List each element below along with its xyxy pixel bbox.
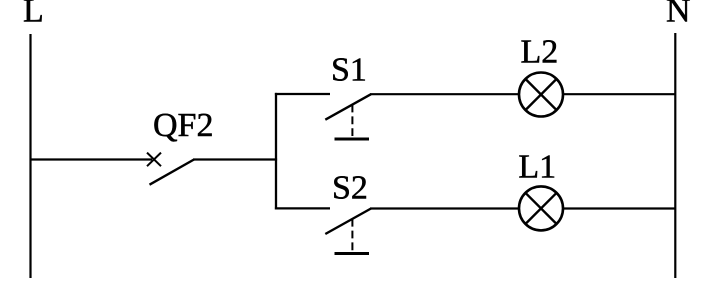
wire top branch from junction to S1 [275,93,330,95]
wire L rail (left vertical supply line) [29,34,31,278]
svg-text:N: N [666,0,691,29]
wire from S1 to lamp L2 [370,93,519,95]
wire from S2 to lamp L1 [370,207,519,209]
svg-text:L1: L1 [518,148,556,185]
switch S2 blade [325,209,371,235]
switch S2 actuator link (dashed) [351,219,353,251]
wire bottom branch from junction to S2 [275,207,330,209]
svg-text:S1: S1 [331,52,367,89]
lamp L2 circle [519,73,563,117]
lamp L1 circle [519,186,563,230]
breaker QF2 contact cross [147,153,161,167]
switch S1 actuator bar [335,138,370,141]
svg-text:L2: L2 [521,34,559,71]
wire N rail (right vertical supply line) [674,33,676,278]
switch S1 actuator link (dashed) [351,105,353,137]
wire from lamp L2 to N rail [563,93,676,95]
wire main from L rail to QF2 contact [30,158,153,160]
switch S2 actuator bar [335,252,370,255]
wire from lamp L1 to N rail [563,207,676,209]
svg-text:QF2: QF2 [153,107,213,144]
lamp L1 cross [525,193,556,224]
wire junction vertical (branch splitter) [275,93,277,210]
wire from QF2 to junction node [193,158,277,160]
breaker QF2 blade [150,160,195,185]
lamp L2 cross [525,79,556,110]
svg-text:L: L [23,0,44,30]
svg-text:S2: S2 [332,170,368,207]
switch S1 blade [325,94,371,120]
